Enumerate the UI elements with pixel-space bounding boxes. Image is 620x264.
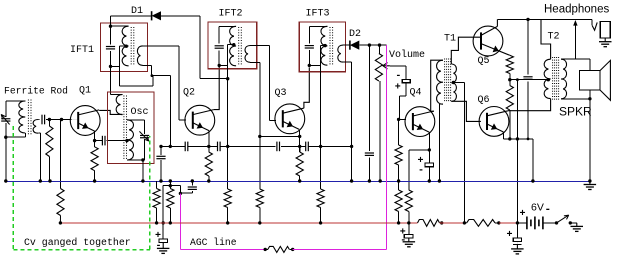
wire emitter to C2: [95, 140, 103, 142]
wire Q2 base lead: [179, 119, 186, 121]
wire IFT3 tap down: [320, 46, 322, 147]
wire Q2 collector to IFT2: [214, 65, 220, 109]
node IFT3 tap: [323, 44, 326, 47]
transistor Q6 (output): [479, 107, 509, 137]
wire T1 to Q6 base: [451, 101, 481, 121]
resistor R15 decoupling: [418, 220, 440, 227]
variable capacitor Cv1 (tuning gang): [1, 118, 10, 120]
wire R13 lower lead: [509, 74, 511, 80]
svg-text:Q3: Q3: [275, 88, 287, 99]
wire Q6 emitter down: [503, 132, 505, 139]
node AGC feed: [60, 118, 63, 121]
transistor Q4 (AF preamp): [405, 107, 435, 137]
wire AGC below bus: [169, 181, 171, 186]
wire output rail: [497, 18, 592, 20]
wire bypass cap top: [428, 150, 430, 163]
svg-text:Q1: Q1: [79, 86, 91, 97]
wire Cv2 bottom: [144, 139, 146, 160]
wire secondary top: [38, 119, 39, 121]
wire bias to T2 tap: [510, 79, 549, 81]
svg-text:+: +: [520, 209, 526, 220]
resistor R7: [256, 189, 263, 208]
resistor R9: [317, 189, 324, 208]
bus node volume: [379, 179, 382, 182]
resistor R1: [46, 126, 53, 157]
supply rail segment 2: [499, 222, 518, 224]
battery 6V: [526, 217, 528, 230]
wire Q3 emitter down: [299, 130, 301, 147]
wire secondary bottom jog: [38, 132, 40, 134]
node osc tap: [125, 139, 128, 142]
wire IFT2 bottom to tap line: [219, 64, 228, 66]
node Q4 base: [397, 118, 400, 121]
wire to bus: [532, 139, 534, 181]
node T2 tap: [547, 78, 550, 81]
wire Q2 emitter down: [208, 131, 210, 146]
node IFT3 bottom: [308, 64, 311, 67]
wire C7a to node: [220, 145, 228, 147]
IFT2 secondary winding: [245, 46, 250, 63]
wire R11 to supply: [398, 212, 400, 223]
node speaker return: [588, 97, 591, 100]
svg-text:Q2: Q2: [183, 87, 195, 98]
wire IFT2 cap top: [218, 26, 220, 43]
wire C13 to bus: [428, 167, 430, 181]
wire Q5 collector up: [496, 19, 498, 26]
wire rail to T2 primary top: [541, 19, 551, 59]
wire Q2 emitter to C7a: [209, 145, 218, 147]
wire T1 to Q5 base: [451, 37, 481, 64]
node AGC filter: [169, 145, 172, 148]
bus node C5: [159, 179, 162, 182]
svg-text:IFT1: IFT1: [70, 45, 94, 56]
wire IFT2 cap bottom: [218, 50, 220, 65]
wire divider down: [320, 146, 322, 189]
bus node C7: [191, 179, 194, 182]
node T1 tap feed: [463, 221, 466, 224]
wire speaker return to bus: [589, 99, 591, 181]
wire Q1 collector to osc feedback coil: [99, 110, 122, 114]
wire node down: [227, 146, 229, 189]
node R11 supply: [397, 221, 400, 224]
node base bias: [258, 135, 261, 138]
svg-text:Headphones: Headphones: [544, 4, 609, 16]
resistor R6 Q2 emitter: [205, 152, 212, 176]
capacitor IFT3 tuning: [305, 45, 314, 47]
oscillator coil box: [108, 92, 155, 164]
wire battery to switch: [543, 222, 557, 224]
speaker horn: [600, 60, 610, 100]
wire secondary bottom down: [151, 65, 153, 75]
node R14 end: [508, 137, 511, 140]
wire IFT3 cap top: [308, 26, 310, 43]
bus node T1: [438, 179, 441, 182]
svg-text:Q5: Q5: [478, 56, 490, 67]
gang link right (dashed green): [149, 136, 151, 250]
capacitor C7 AGC: [188, 186, 197, 188]
node Q1 emitter: [93, 139, 96, 142]
IFT3 shield box: [299, 22, 345, 72]
node decoupler: [162, 221, 165, 224]
wire tap across: [120, 85, 153, 87]
svg-text:-: -: [418, 166, 424, 177]
wire IFT3 bottom to tap: [309, 64, 320, 66]
gang link left (dashed green): [12, 126, 14, 250]
IFT2 primary winding: [230, 26, 236, 66]
capacitor C15 decoupling (electrolytic): [159, 239, 167, 243]
wire bypass cap to bus: [160, 160, 162, 181]
osc feedback winding: [116, 95, 122, 115]
wire IFT2 secondary top: [250, 45, 269, 47]
wire to battery: [517, 222, 527, 224]
wire Q6 collector to T2: [508, 99, 551, 111]
node R9 supply: [319, 221, 322, 224]
wire R9 to supply: [320, 208, 322, 223]
wire to AGC takeoff: [170, 185, 180, 187]
wire tone cap top: [527, 19, 529, 74]
wire to volume: [379, 45, 381, 53]
ground C15: [162, 242, 164, 248]
wire IFT2 primary top: [219, 25, 236, 27]
wire to Q4 base: [400, 95, 407, 97]
node IFT2 bottom: [218, 64, 221, 67]
capacitor C17 decoupling (electrolytic): [404, 234, 413, 238]
variable capacitor Cv2 (osc gang): [140, 134, 149, 136]
wire IFT3 tap: [321, 45, 326, 47]
wire R4 to supply: [156, 208, 158, 223]
capacitor C12 coupling (electrolytic): [402, 80, 410, 83]
headphone jack switch contact: [592, 22, 597, 30]
wire divider down: [259, 136, 261, 189]
wire bypass cap top: [160, 146, 162, 155]
transistor Q1 (converter): [70, 106, 100, 136]
node R6b supply: [226, 221, 229, 224]
bus node C11: [368, 179, 371, 182]
wire top rail left: [111, 15, 152, 17]
wire battery feed: [516, 80, 518, 223]
wire T2 secondary bottom: [561, 98, 590, 100]
wire osc to bus: [142, 160, 144, 181]
potentiometer Volume track: [375, 54, 382, 82]
wire to speaker: [575, 58, 590, 60]
wire secondary return down: [351, 62, 353, 146]
ground bus earth: [589, 181, 591, 185]
supply rail B- (red): [60, 222, 417, 224]
speaker SPKR body: [580, 71, 600, 90]
capacitor C9 neutralizing: [305, 142, 307, 152]
svg-text:Q6: Q6: [478, 95, 490, 106]
node bypass branch: [159, 145, 162, 148]
resistor R2 to supply line: [57, 189, 64, 216]
node AGC junction: [151, 74, 154, 77]
wire C9 to IFT3 tap line: [308, 145, 320, 147]
wire divider lower: [398, 181, 400, 190]
T2 secondary winding: [561, 59, 567, 99]
wire rail to IFT2 tap: [200, 78, 228, 80]
wire IFT2 secondary bottom: [250, 61, 260, 63]
wire C6 to Q2 emitter: [188, 145, 209, 147]
ferrite rod core: [27, 100, 29, 135]
bus node antenna: [4, 179, 7, 182]
node filter: [368, 43, 371, 46]
wire C7 top: [191, 181, 193, 185]
bus node R8: [298, 179, 301, 182]
node IFT2 feed: [226, 77, 229, 80]
node IFT1 top: [109, 25, 112, 28]
wire C7 to AGC node: [180, 192, 192, 194]
wire AGC resistor lead right: [289, 248, 292, 250]
resistor R10 Q4 bias: [395, 145, 402, 165]
svg-text:Ferrite Rod: Ferrite Rod: [4, 86, 68, 97]
IFT2 core: [238, 27, 240, 65]
IFT1 primary winding: [122, 26, 128, 66]
diode D2 detector: [349, 41, 351, 50]
ground switch: [576, 223, 578, 227]
node R5 supply: [169, 221, 172, 224]
wire IFT3 secondary bottom: [343, 61, 352, 63]
node tone cap end: [527, 138, 530, 141]
wire Q4 emitter down: [428, 132, 430, 150]
node Q4 emitter: [428, 148, 431, 151]
node Q2 emitter: [207, 145, 210, 148]
capacitor C6 IF bypass: [184, 142, 186, 152]
AGC line left leg (magenta): [179, 193, 181, 249]
wire Q3 collector to IFT3: [304, 67, 309, 108]
wire detector output: [359, 44, 386, 46]
transistor Q2 (1st IF amp): [185, 105, 215, 135]
node volume top: [378, 43, 381, 46]
wire IFT1 cap branch bottom: [110, 51, 112, 66]
wire Q4 base lead: [399, 118, 406, 120]
svg-text:T1: T1: [444, 34, 456, 45]
svg-text:D2: D2: [349, 29, 361, 40]
wire AGC across: [152, 75, 171, 77]
IFT1 shield box: [101, 23, 148, 72]
wire rail down: [199, 16, 201, 79]
wire C2 to osc tap: [106, 140, 127, 142]
wire emitter resistor lead: [94, 141, 96, 147]
node bias mid: [508, 78, 511, 81]
IFT3 secondary winding: [338, 45, 343, 62]
capacitor C11 AF filter: [365, 152, 374, 154]
jack tip arrow: [573, 20, 577, 26]
wire IFT2 tap down: [227, 45, 229, 147]
wire decoupling cap C17: [408, 223, 410, 234]
resistor R12 Q4 emitter: [405, 190, 412, 212]
wire switch to ground: [570, 222, 577, 224]
wire IFT3 cap bottom: [308, 50, 310, 65]
wire Cv1 bottom lead: [5, 123, 7, 137]
wire to osc feedback top: [111, 94, 123, 96]
node T1 secondary tap: [452, 81, 455, 84]
wire IFT3 primary top: [309, 25, 327, 27]
bus node C13: [428, 179, 431, 182]
svg-text:+: +: [507, 230, 513, 241]
wire R12 upper: [408, 150, 410, 190]
wire AGC takeoff down: [179, 186, 181, 194]
wire jack: [591, 19, 593, 25]
wire IFT1 cap branch top: [110, 26, 112, 44]
ground C17: [408, 238, 410, 242]
ground C16: [516, 244, 518, 249]
node AGC filter junction: [169, 184, 172, 187]
wire IFT3 secondary top to D2: [343, 44, 350, 46]
osc core: [123, 96, 125, 161]
wire main filter cap: [516, 223, 518, 238]
wire tank top: [127, 119, 145, 121]
wire C12 bottom: [405, 83, 407, 97]
wire R14 upper lead: [509, 80, 511, 86]
capacitor C14 tone: [523, 76, 532, 78]
wire down to ground bus: [5, 137, 7, 181]
node IFT3 tap line: [319, 145, 322, 148]
svg-text:IFT2: IFT2: [219, 8, 243, 19]
AGC line right leg (magenta): [386, 45, 388, 249]
node feed crossing: [516, 137, 519, 140]
wire decoupler down: [162, 186, 164, 223]
resistor R5 AGC: [167, 189, 174, 209]
IFT1 core: [130, 27, 132, 65]
AGC line bottom left (magenta): [180, 248, 265, 250]
svg-text:-: -: [395, 71, 401, 82]
wire AGC node link: [161, 145, 170, 147]
resistor R17 AGC: [268, 246, 290, 252]
wire T1 tap: [453, 82, 464, 84]
wire IFT1 primary top: [111, 25, 129, 27]
switch arm arrow: [564, 215, 569, 219]
wire IFT1 to oscillator: [110, 66, 112, 94]
bus node R10: [397, 179, 400, 182]
wire R8 to bus: [299, 176, 301, 181]
diode D1: [151, 11, 153, 20]
wire filter cap lead: [368, 45, 370, 151]
wire R1 top lead: [48, 120, 50, 127]
capacitor C8: [276, 142, 278, 152]
node R7 supply: [258, 221, 261, 224]
bus node R6: [207, 179, 210, 182]
wire R3 to bus: [94, 171, 96, 181]
wire T2 secondary top: [561, 58, 575, 60]
wire emitter line: [228, 145, 276, 147]
T2 primary winding: [544, 59, 550, 98]
svg-text:+: +: [395, 83, 401, 94]
IFT3 core: [329, 27, 331, 65]
IFT2 shield box: [208, 22, 257, 69]
T2 core: [552, 57, 554, 101]
volume wiper: [383, 65, 390, 67]
svg-text:-: -: [545, 204, 552, 216]
bus node R1: [48, 179, 51, 182]
wire R10 to bus: [398, 165, 400, 181]
node supply start: [59, 221, 62, 224]
node R12 supply: [407, 221, 410, 224]
wire AGC divider down: [60, 120, 62, 189]
gang link bottom (dashed green): [13, 249, 150, 251]
wire T1 primary to bus: [438, 104, 440, 181]
wire speaker top lead: [589, 59, 591, 70]
bus node osc: [141, 179, 144, 182]
node detector return: [350, 145, 353, 148]
wire AGC resistor lead: [265, 248, 268, 250]
resistor R14: [506, 86, 513, 111]
wire antenna top: [6, 100, 26, 102]
wire C12 top: [405, 66, 407, 80]
wire tap down: [119, 46, 121, 86]
wire Cv1 top lead: [5, 101, 7, 117]
wire T1 primary bottom: [439, 103, 443, 105]
wire electrolytic lead: [162, 223, 164, 239]
node bias link end: [298, 135, 301, 138]
wire secondary bottom to bus: [39, 133, 41, 181]
wire IFT2 tap: [228, 44, 234, 46]
svg-text:T2: T2: [548, 32, 560, 43]
wire to detector return: [321, 145, 352, 147]
node Q3 emitter: [298, 145, 301, 148]
wire C8 to Q3 emitter: [281, 145, 300, 147]
node Cv1/primary junction: [4, 136, 7, 139]
wire base feed: [399, 96, 401, 119]
node IFT1 primary tap: [125, 45, 128, 48]
wire R5 to supply: [169, 208, 171, 223]
bus node IFT3 return: [350, 179, 353, 182]
wire R6 to bus: [208, 176, 210, 181]
wire jog to decoupler: [163, 185, 170, 187]
wire to Cv2: [144, 120, 146, 134]
wire IFT1 secondary bottom: [143, 64, 152, 66]
wire emitter line: [504, 138, 533, 140]
resistor R16 decoupling: [467, 220, 495, 227]
node switch: [555, 221, 558, 224]
node R1 top: [48, 118, 51, 121]
node R16: [497, 221, 500, 224]
node switch contact: [569, 221, 572, 224]
capacitor C13 emitter bypass (electrolytic): [425, 163, 433, 167]
T1 secondary winding: [451, 64, 456, 101]
wire R7 to supply: [259, 208, 261, 223]
switch arm: [557, 215, 569, 223]
wire to C6: [170, 145, 185, 147]
wire tank bottom: [127, 159, 145, 161]
bus node speaker: [588, 179, 591, 182]
osc tank winding: [127, 120, 133, 160]
node emitter line junction: [226, 145, 229, 148]
capacitor IFT1 tuning: [106, 46, 115, 48]
wire tap up to AGC node: [152, 76, 154, 87]
wire down to Q3 base: [269, 46, 271, 121]
capacitor IFT2 tuning: [215, 45, 224, 47]
node AGC resistor right: [291, 248, 294, 251]
bus node R3: [93, 179, 96, 182]
node IFT2 tap: [232, 43, 235, 46]
ferrite rod secondary winding: [33, 120, 38, 134]
transistor Q5 (output): [473, 26, 503, 56]
wire Q1 emitter down: [94, 131, 96, 140]
capacitor C2 osc injection: [101, 136, 103, 146]
T1 primary winding: [437, 60, 443, 104]
wire bias divider: [398, 119, 400, 145]
svg-text:Volume: Volume: [389, 49, 425, 61]
wire rail to IFT1: [110, 16, 112, 26]
resistor R3 Q1 emitter: [91, 147, 98, 171]
node AGC takeoff: [179, 192, 182, 195]
T1 core: [444, 59, 446, 103]
wire secondary bottom down: [259, 62, 261, 136]
wire R14 down: [509, 110, 511, 139]
svg-text:Osc: Osc: [131, 107, 149, 118]
transistor Q3 (2nd IF amp): [275, 104, 305, 134]
wire R12 to supply: [408, 212, 410, 223]
wire primary bottom to Cv1: [6, 136, 26, 138]
